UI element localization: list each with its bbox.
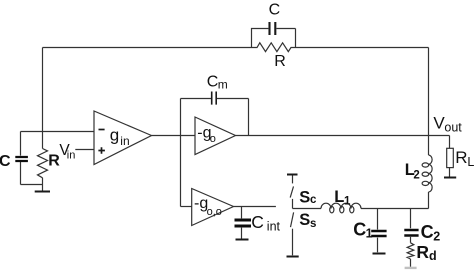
svg-text:C: C	[0, 153, 11, 170]
wire L1 to tank	[361, 208, 429, 210]
svg-text:R: R	[416, 242, 429, 262]
wire main output line	[236, 135, 450, 137]
switch Ss bottom lead	[292, 229, 294, 256]
ground (RL)	[444, 177, 456, 179]
ground (Rd, faded)	[405, 267, 417, 269]
gin plus sign	[98, 147, 105, 154]
svg-text:C: C	[251, 212, 264, 232]
op-amp -goo triangle	[192, 189, 234, 226]
capacitor C1 plates	[371, 231, 386, 236]
svg-text:in: in	[67, 150, 76, 162]
wire C-R bottom join	[21, 178, 43, 191]
svg-text:C: C	[269, 1, 281, 18]
inductor L1 loops	[330, 207, 334, 213]
wire gin output to -go input	[152, 135, 196, 137]
svg-text:2: 2	[413, 169, 419, 181]
inductor L2 arcs	[429, 155, 433, 192]
gin minus sign	[99, 129, 105, 131]
svg-text:o: o	[210, 133, 216, 145]
svg-text:1: 1	[344, 195, 351, 207]
svg-text:g: g	[110, 126, 119, 145]
switch Ss bottom bar	[287, 256, 299, 258]
ground (C1)	[373, 253, 386, 255]
svg-text:C: C	[353, 219, 366, 239]
wire node vertical (gin output node)	[180, 99, 182, 207]
svg-text:L: L	[334, 188, 344, 206]
ground (input RC)	[35, 191, 50, 193]
wire Cm right vertical to output	[248, 99, 250, 136]
capacitor C2 plates	[404, 230, 418, 236]
svg-text:R: R	[455, 148, 467, 167]
svg-text:out: out	[444, 121, 462, 135]
wire Cm branch	[181, 98, 249, 100]
capacitor C plates	[270, 22, 276, 35]
resistor R (top feedback)	[252, 43, 296, 52]
svg-text:o,o: o,o	[207, 206, 222, 218]
wire V+feedback right vertical	[428, 48, 430, 156]
svg-text:in: in	[120, 134, 129, 148]
capacitor Cint plates	[235, 220, 252, 226]
capacitor C (input, left)	[20, 132, 22, 185]
inductor L1 arcs	[321, 203, 361, 208]
capacitor C1 stub	[377, 209, 379, 253]
wire top feedback left vertical	[42, 48, 44, 149]
capacitor C2 stub	[410, 209, 412, 243]
resistor RL box	[447, 148, 454, 167]
op-amp -go triangle	[195, 117, 236, 155]
op-amp gin triangle	[94, 111, 152, 165]
capacitor Cint stub	[241, 207, 243, 239]
svg-text:int: int	[267, 219, 281, 233]
svg-text:C: C	[207, 73, 219, 90]
wire -goo output	[234, 206, 276, 208]
wire RL drop	[449, 136, 451, 149]
switch Ss blade	[291, 212, 294, 227]
capacitor Cm plates	[212, 92, 217, 105]
wire switch node to L1	[293, 208, 322, 210]
switch Sc blade	[290, 186, 293, 197]
svg-text:C: C	[421, 222, 434, 242]
wire top feedback horizontal left	[43, 47, 252, 49]
resistor R (input)	[38, 149, 48, 178]
svg-text:S: S	[299, 189, 310, 207]
wire Vin stub to + input	[75, 149, 94, 151]
svg-text:s: s	[310, 218, 316, 230]
capacitor C input plates	[15, 157, 28, 161]
capacitor C (top feedback) branch	[252, 29, 296, 48]
wire Rd to ground	[410, 259, 412, 267]
svg-text:d: d	[429, 249, 437, 263]
switch Sc top bar	[287, 174, 298, 176]
svg-text:R: R	[274, 53, 286, 70]
wire input node horizontal	[21, 131, 95, 133]
svg-text:2: 2	[433, 229, 440, 243]
svg-text:1: 1	[366, 227, 373, 241]
switch Sc top lead	[292, 176, 294, 184]
op-amp -goo input wire	[181, 206, 192, 208]
svg-text:L: L	[467, 155, 474, 169]
inductor L2 loops	[422, 163, 429, 167]
resistor Rd	[407, 243, 414, 259]
wire RL to ground	[449, 168, 451, 177]
ground (Cint)	[236, 239, 249, 241]
svg-text:c: c	[310, 194, 317, 206]
wire top feedback horizontal right	[296, 47, 429, 49]
switch Sc bottom lead	[292, 199, 294, 209]
wire L2 bottom lead	[428, 192, 430, 209]
svg-text:m: m	[218, 78, 228, 92]
svg-text:S: S	[299, 211, 310, 229]
